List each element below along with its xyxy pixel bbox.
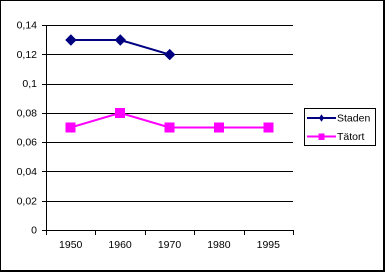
y tick 0,1 — [42, 84, 46, 85]
svg-text:0,04: 0,04 — [17, 166, 38, 178]
marker Tätort 1960 — [115, 108, 125, 118]
svg-text:0,02: 0,02 — [17, 195, 38, 207]
outer border top — [0, 0, 385, 1]
y tick 0,14 — [42, 25, 46, 26]
series Staden line — [71, 40, 170, 55]
x tick 4 — [244, 230, 245, 235]
svg-text:0,08: 0,08 — [17, 108, 38, 120]
y tick 0,12 — [42, 54, 46, 55]
y tick 0,08 — [42, 113, 46, 114]
marker Staden 1970 — [164, 49, 175, 60]
x axis — [46, 230, 294, 231]
svg-text:0,06: 0,06 — [17, 137, 38, 149]
gridline 0,06 — [46, 142, 293, 143]
series Tätort line — [71, 113, 269, 128]
y tick 0,06 — [42, 142, 46, 143]
x tick 1 — [95, 230, 96, 235]
gridline 0,08 — [46, 113, 293, 114]
outer border left — [0, 0, 1, 272]
svg-text:0: 0 — [31, 225, 37, 237]
gridline 0,02 — [46, 201, 293, 202]
outer border right — [383, 0, 385, 272]
gridline 0,04 — [46, 171, 293, 172]
legend Tätort marker — [318, 133, 324, 139]
svg-text:1995: 1995 — [257, 239, 281, 251]
outer border bottom — [0, 270, 385, 272]
legend Staden marker — [319, 114, 324, 122]
x tick right — [293, 230, 294, 235]
gridline 0,1 — [46, 84, 293, 85]
svg-text:Tätort: Tätort — [337, 131, 365, 143]
svg-text:1980: 1980 — [207, 239, 231, 251]
y tick 0,04 — [42, 171, 46, 172]
y tick 0 — [42, 230, 46, 231]
svg-text:0,12: 0,12 — [17, 49, 38, 61]
svg-text:0,1: 0,1 — [22, 78, 37, 90]
legend box — [305, 109, 376, 146]
svg-text:1950: 1950 — [59, 239, 83, 251]
marker Tätort 1980 — [214, 123, 224, 133]
y tick 0,02 — [42, 201, 46, 202]
marker Staden 1960 — [115, 34, 126, 45]
x tick 2 — [145, 230, 146, 235]
gridline 0,14 — [46, 25, 293, 26]
marker Tätort 1950 — [66, 123, 76, 133]
svg-text:1960: 1960 — [108, 239, 132, 251]
gridline 0,12 — [46, 54, 293, 55]
svg-text:1970: 1970 — [158, 239, 182, 251]
legend Staden line — [307, 117, 336, 119]
marker Tätort 1970 — [165, 123, 175, 133]
svg-text:Staden: Staden — [337, 113, 370, 125]
x tick 3 — [194, 230, 195, 235]
x tick left — [46, 230, 47, 235]
marker Tätort 1995 — [263, 123, 273, 133]
svg-text:0,14: 0,14 — [17, 20, 38, 32]
legend Tätort line — [307, 136, 336, 138]
y axis — [46, 25, 47, 230]
marker Staden 1950 — [65, 34, 76, 45]
